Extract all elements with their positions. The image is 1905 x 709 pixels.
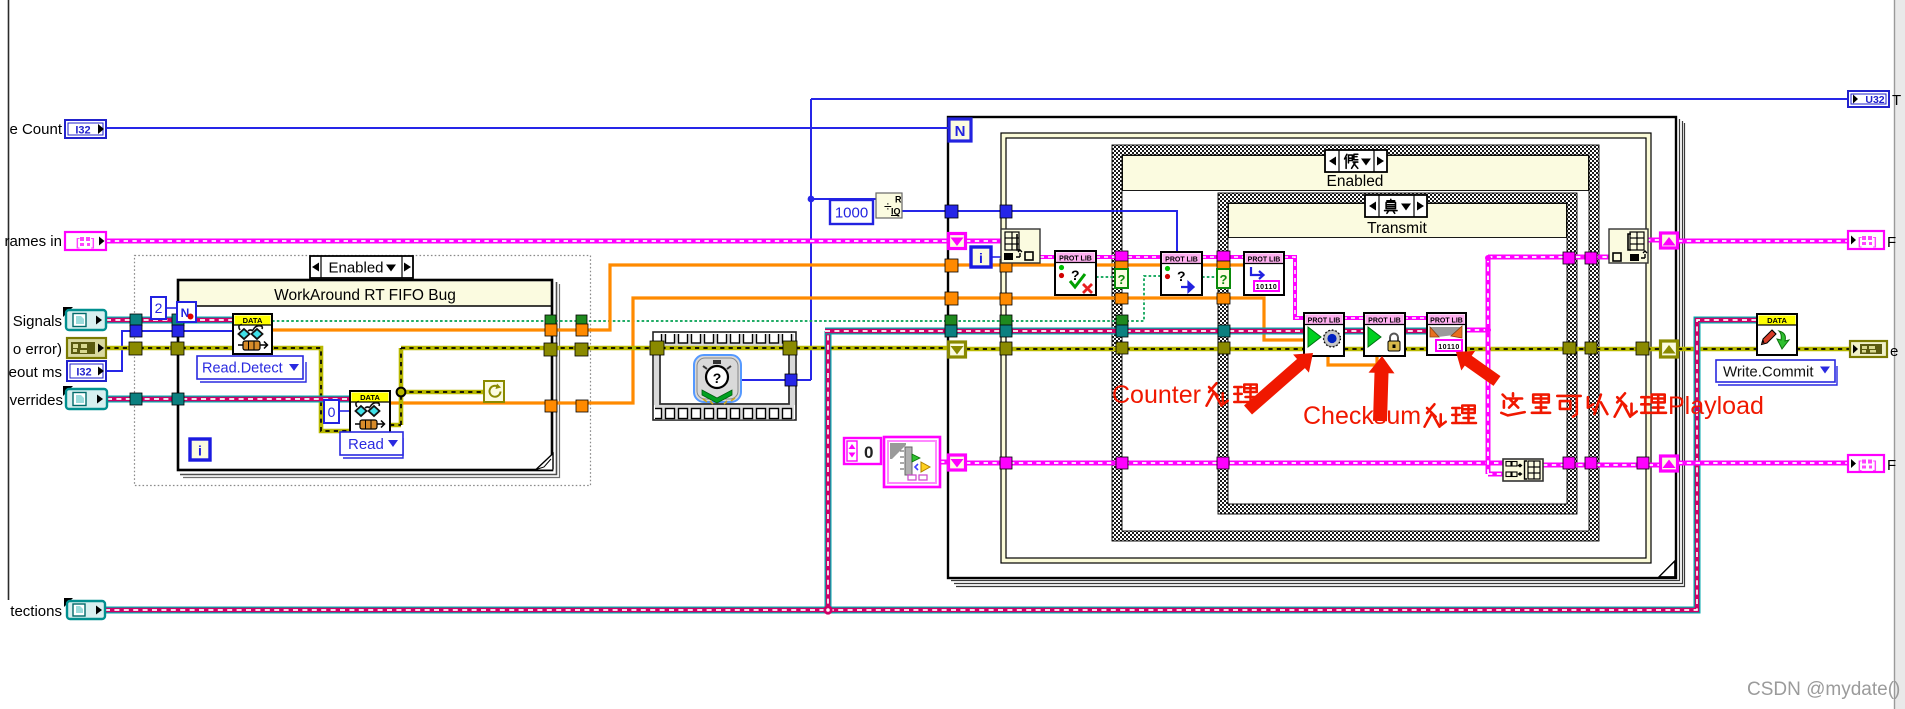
svg-text:verrides: verrides [10, 392, 63, 409]
svg-text:?: ? [1118, 272, 1126, 287]
shift register right (error, olive up-arrow) [1661, 341, 1678, 357]
svg-text:Enabled: Enabled [328, 260, 383, 277]
svg-text:0: 0 [864, 443, 873, 462]
indicator: error out e (olive) [1850, 341, 1887, 357]
svg-text:10110: 10110 [1438, 344, 1460, 351]
build frames icon (case right border) [1609, 229, 1648, 263]
tunnels on case right border [1636, 342, 1649, 355]
wire: error cluster main (olive/black dashed) [106, 348, 1850, 431]
svg-text:tections: tections [10, 603, 62, 620]
wire: frame Count I32 to N (blue) [106, 127, 948, 129]
svg-text:rames in: rames in [4, 233, 62, 250]
svg-text:PROT LIB: PROT LIB [1248, 257, 1281, 264]
inner case structure (cream double border) [1004, 136, 1649, 561]
Enabled label band [1123, 156, 1589, 191]
tunnels on Enabled right border [1585, 252, 1597, 264]
svg-text:]: ] [1873, 236, 1877, 248]
svg-text:Counter: Counter [1112, 381, 1201, 409]
wire: XNET session Signals [106, 317, 233, 324]
annotation arrow to payload node [1456, 351, 1501, 386]
wire: divide output to case (blue) [902, 211, 1177, 252]
film-strip flat sequence [653, 332, 796, 420]
wire: boolean to Enabled selector (green) [1096, 276, 1117, 278]
svg-text:WorkAround RT FIFO Bug: WorkAround RT FIFO Bug [274, 287, 456, 304]
PROT LIB get frame node 3 [1244, 252, 1284, 295]
svg-text:I32: I32 [75, 125, 90, 137]
svg-text:Enabled: Enabled [1327, 173, 1384, 190]
terminal: protections (session) [64, 598, 105, 619]
iteration i terminal (frame) [190, 439, 210, 460]
wire: iteration i stub (blue) [991, 256, 1001, 258]
indicator: frames out F bottom (magenta) [1848, 455, 1884, 472]
svg-text:Playload: Playload [1668, 392, 1764, 420]
wire: const 2 to N-fifo (blue) [166, 307, 178, 309]
annotation: Counter [1112, 381, 1258, 409]
svg-text:DATA: DATA [360, 393, 380, 402]
page curl of frame [537, 454, 553, 470]
tunnels on film sequence borders [650, 341, 664, 355]
svg-text:F: F [1887, 234, 1896, 251]
svg-text:Read: Read [348, 436, 384, 453]
svg-text:Read.Detect: Read.Detect [202, 361, 283, 377]
shift register right (frames, magenta up-arrow) [1661, 233, 1678, 248]
terminal: overrides (session) [63, 386, 107, 409]
svg-text:I32: I32 [76, 367, 91, 379]
wire: XNET session protections (bottom run) [105, 320, 1757, 610]
iteration i terminal (for loop) [971, 247, 991, 267]
loop count N terminal [949, 119, 971, 141]
wire: DBL timestamp orange A [272, 265, 1245, 330]
time delay express VI (stopwatch) [694, 355, 741, 404]
svg-text:PROT LIB: PROT LIB [1368, 318, 1401, 325]
indicator: frames out F (magenta) [1848, 231, 1884, 249]
diagram disable structure (dashed) [135, 256, 591, 486]
svg-text:Signals: Signals [13, 313, 62, 330]
terminal: frames in (XNET frame array) [65, 232, 106, 250]
WorkAround RT FIFO Bug frame [178, 280, 552, 470]
Enabled (false case) selector [1325, 150, 1387, 172]
PROT LIB check node 2 [1161, 252, 1202, 295]
tunnels on Transmit right border [1563, 252, 1575, 264]
DATA read node 2 (Read) [350, 391, 390, 433]
svg-text:Write.Commit: Write.Commit [1723, 364, 1814, 381]
tunnels on dashed structure right border [576, 315, 587, 326]
svg-text:]: ] [91, 237, 95, 249]
shift register left (error, olive down-arrow) [949, 342, 966, 357]
wire: frames array bottom run right [1543, 463, 1848, 465]
dropdown Read.Detect [197, 356, 306, 382]
wire: frame chain vertical x1488 [1466, 257, 1609, 474]
tunnels on frame left border [172, 314, 184, 326]
junction dots [808, 196, 815, 203]
wire: session branch up into loop [825, 331, 832, 613]
svg-text:N: N [955, 123, 966, 140]
window left border [8, 0, 10, 600]
svg-text:Transmit: Transmit [1367, 220, 1427, 237]
terminal: Frame Count I32 control [65, 120, 106, 138]
svg-text:i: i [198, 443, 202, 459]
svg-text:Checksum: Checksum [1303, 402, 1421, 430]
svg-text:CSDN @mydate(): CSDN @mydate() [1747, 679, 1900, 700]
PROT LIB payload node [1427, 313, 1466, 355]
RT FIFO N node [177, 302, 196, 322]
svg-text:PROT LIB: PROT LIB [1059, 256, 1092, 263]
constant 1000 [830, 200, 873, 224]
svg-text:PROT LIB: PROT LIB [1165, 257, 1198, 264]
indicator: U32 (top right) [1848, 91, 1889, 107]
svg-text:[: [ [76, 237, 80, 249]
Transmit (true case) selector [1365, 195, 1427, 217]
WorkAround RT FIFO Bug frame shadow [180, 282, 557, 475]
shift register left (frames, magenta down-arrow) [949, 234, 966, 249]
PROT LIB counter node [1304, 313, 1344, 356]
for loop shadow stack [951, 119, 1685, 587]
svg-text:PROT LIB: PROT LIB [1308, 318, 1341, 325]
wire: boolean to Transmit selector (green) [1202, 276, 1219, 278]
svg-text:2: 2 [155, 300, 163, 316]
tunnels on frame right border [545, 315, 556, 326]
svg-text:[: [ [1858, 460, 1862, 472]
window right edge / scrollbar [1894, 0, 1905, 709]
wire: counter to checksum orange elbow [1328, 356, 1377, 365]
dropdown Read [340, 432, 403, 458]
wire: frames array bottom run left [966, 461, 1503, 466]
build array icon [1503, 459, 1543, 481]
terminal: error in (no error) [67, 338, 106, 358]
annotation: Checksum [1303, 402, 1476, 430]
svg-text:DATA: DATA [243, 316, 263, 325]
for loop border [948, 117, 1676, 578]
shift register right (frames out, magenta up-arrow) [1661, 456, 1678, 471]
tunnels on Transmit left border [1217, 251, 1230, 262]
annotation: here you can process Playload [1501, 392, 1764, 420]
wire: timeout ms (blue) [106, 331, 233, 371]
index array icon (case left border) [1001, 229, 1040, 263]
wire: fifo vi to shift register stub [940, 460, 950, 465]
clear error / repeat node [484, 381, 504, 402]
constant 0 (FIFO read) [324, 400, 339, 423]
tunnels on Enabled left border [1115, 251, 1128, 262]
wire: time delay vertical riser (blue) [741, 99, 876, 380]
wire: frame out to indicator top [1646, 240, 1848, 241]
svg-text:o error): o error) [13, 341, 62, 358]
case selector Enabled (left structure) [310, 256, 413, 278]
wire: loop period U32 (blue) [811, 98, 1848, 100]
Transmit label band [1229, 204, 1567, 238]
shift register left (frames out, magenta down-arrow) [949, 455, 966, 470]
tunnels on for-loop left border [945, 205, 958, 218]
wire: XNET session overrides [107, 396, 350, 403]
svg-text:?: ? [713, 370, 722, 386]
terminal: Signals (DAQmx/session) [63, 307, 106, 330]
wire: boolean detected (green dotted) [272, 276, 1161, 321]
tunnels on dashed structure left border [130, 314, 142, 326]
svg-text:?: ? [1177, 268, 1186, 284]
annotation arrow to checksum node [1369, 356, 1395, 421]
selector tunnel ? on Enabled border [1115, 269, 1128, 288]
PROT LIB checksum node [1364, 313, 1405, 356]
svg-text:U32: U32 [1865, 94, 1884, 106]
wire: frames in (magenta hatched) [106, 239, 949, 244]
svg-text:e Count: e Count [9, 121, 62, 138]
wire: frames into index icon [966, 239, 1005, 244]
wire: const 0 to DATA2 (blue) [340, 410, 350, 412]
DATA read node 1 (Read.Detect) [233, 314, 272, 354]
tunnels on case left border [1000, 205, 1012, 218]
DATA write node (Write.Commit) [1757, 314, 1797, 355]
annotation arrow to counter node [1244, 353, 1313, 415]
svg-text:?: ? [1220, 272, 1228, 287]
selector tunnel ? on Transmit border [1217, 269, 1230, 288]
Enabled case structure (checkered border) [1117, 150, 1594, 536]
svg-text:e: e [1890, 343, 1898, 360]
constant 2 [151, 297, 166, 319]
PROT LIB check node 1 [1055, 251, 1096, 295]
svg-text:eout ms: eout ms [9, 364, 62, 381]
numeric 0 spinner (magenta) [844, 438, 881, 464]
svg-text:0: 0 [328, 404, 336, 420]
wire: session across loop to Playload [825, 328, 1428, 335]
svg-text:R: R [895, 195, 902, 205]
dropdown Write.Commit [1716, 360, 1837, 385]
wire: single frame chain (thin magenta) [1040, 257, 1427, 318]
Transmit case structure (checkered border) [1223, 198, 1572, 509]
FIFO config VI icon (magenta) [884, 437, 940, 487]
svg-text:1000: 1000 [835, 205, 868, 222]
svg-text:T: T [1892, 92, 1901, 109]
terminal: timeout ms I32 [67, 361, 106, 381]
svg-text:DATA: DATA [1767, 316, 1787, 325]
svg-text:F: F [1887, 457, 1896, 474]
for loop page curl [1659, 561, 1675, 577]
svg-text:[: [ [1858, 236, 1862, 248]
svg-text:]: ] [1873, 460, 1877, 472]
svg-text:10110: 10110 [1256, 284, 1278, 291]
svg-text:i: i [979, 250, 983, 266]
svg-text:PROT LIB: PROT LIB [1430, 318, 1463, 325]
divide to IQ node [876, 193, 902, 218]
wire: DBL values orange B [390, 298, 1304, 403]
